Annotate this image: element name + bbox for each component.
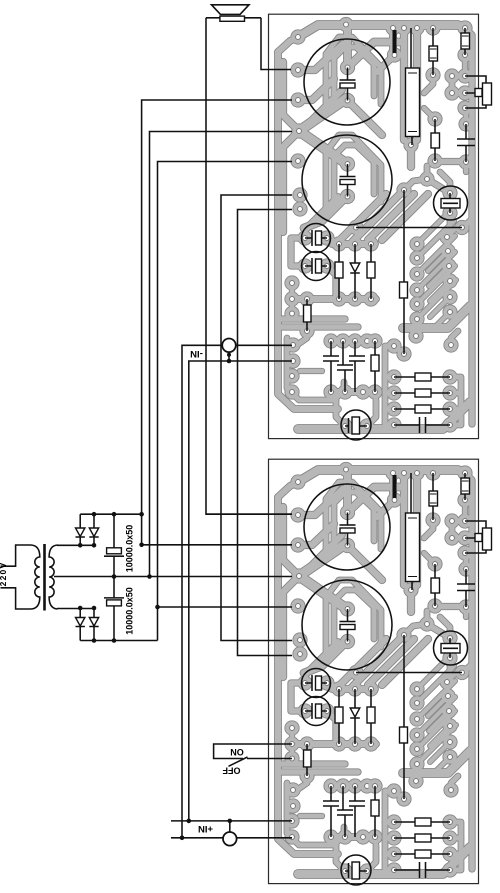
svg-text:220V: 220V: [0, 562, 8, 587]
resistor R1: [432, 28, 434, 75]
wire V- to board B: [158, 606, 293, 608]
diode D1: [76, 514, 85, 545]
junction +IN line A: [228, 819, 233, 824]
smoothing capacitor C12: [104, 514, 124, 576]
wire 220V primary leads: [1, 545, 32, 609]
wire +IN line A: [171, 821, 292, 833]
electrolytic capacitor C3 (circle): [302, 669, 331, 698]
capacitor C9 plates: [323, 786, 339, 837]
resistor R2: [464, 28, 466, 55]
wire V+ to board B: [142, 544, 292, 546]
diode D5 (center): [350, 689, 360, 744]
resistor R11 (bottom mid): [374, 786, 376, 837]
junction V+ to board B: [139, 543, 144, 548]
resistor R8: [394, 376, 450, 378]
capacitor C10 plates: [337, 341, 353, 392]
resistor R1: [432, 473, 434, 520]
wire 0V to board A (vertical x=149.5): [150, 132, 293, 577]
junction diode D4 cathode: [92, 606, 97, 611]
capacitor C7 plates (right): [457, 124, 475, 162]
big filter capacitor C1 outline: [304, 39, 390, 125]
junction 0V rail: [147, 574, 152, 579]
amplifier board A: PCB outline: [269, 14, 479, 438]
wire secondary bottom lead: [57, 608, 94, 610]
electrolytic capacitor C5 (circle, bottom): [341, 410, 371, 440]
resistor R9: [394, 837, 450, 839]
speaker LS1 cone: [212, 5, 250, 15]
input jack +IN tip circle: [223, 832, 237, 846]
speaker LS1 magnet: [206, 17, 261, 19]
switch S1 lever: [229, 757, 248, 766]
wire V+ rail: [80, 513, 141, 515]
diode D3: [76, 608, 85, 641]
junction diode D1 anode: [78, 543, 83, 548]
junction diode D2 anode: [92, 543, 97, 548]
amplifier board B: copper trace outlines: [278, 470, 472, 874]
resistor R4 (center): [338, 689, 340, 744]
electrolytic capacitor C3 (circle): [302, 224, 331, 253]
wire -IN tip: [182, 345, 292, 838]
svg-text:10000.0x50: 10000.0x50: [125, 587, 135, 635]
resistor R5 (center): [370, 689, 372, 744]
capacitor C11 plates: [349, 341, 365, 392]
film capacitor C6 (tall rectangle): [411, 28, 412, 145]
svg-text:-IN: -IN: [190, 348, 203, 359]
resistor R2: [464, 473, 466, 500]
transformer T1 secondary winding: [49, 545, 58, 609]
capacitor C1 plates: [340, 524, 356, 526]
capacitor C1 plates: [340, 79, 356, 81]
wire W2 (horizontal): [356, 672, 462, 674]
resistor R10: [394, 853, 450, 855]
diode D4: [89, 608, 98, 641]
transistor Q1 (circle): [434, 186, 468, 220]
input jack -IN tip circle: [222, 339, 236, 353]
transformer T1 primary winding: [31, 545, 40, 609]
junction V- rail / C13: [112, 638, 117, 643]
resistor R5 (center): [370, 244, 372, 299]
junction -IN sleeve to +IN line: [187, 819, 192, 824]
transformer T1 core: [43, 544, 46, 611]
svg-text:ON: ON: [230, 747, 244, 757]
big filter capacitor C1 outline: [304, 484, 390, 570]
electrolytic capacitor C4 (circle): [302, 252, 331, 281]
capacitor C9 plates: [323, 341, 339, 392]
junction V- rail / D4: [92, 638, 97, 643]
junction V- branch to board B: [155, 605, 160, 610]
junction -IN sleeve: [227, 353, 231, 357]
capacitor C7 plates (right): [457, 569, 475, 607]
wire W1 with resistor R7: [403, 635, 405, 799]
electrolytic capacitor C5 (circle, bottom): [341, 855, 371, 885]
resistor R3: [434, 119, 436, 161]
junction V+ rail: [139, 512, 144, 517]
svg-text:OFF: OFF: [222, 766, 240, 776]
wire V- to board A (vertical x=157.5): [158, 162, 293, 641]
wire 0V mid rail: [54, 576, 292, 578]
amplifier board A: copper trace outlines: [278, 25, 472, 429]
wire W1 with resistor R7: [403, 190, 405, 354]
resistor R11 (bottom mid): [374, 341, 376, 392]
input connector J1: [465, 76, 486, 108]
wire jumper (black bar): [393, 475, 397, 498]
capacitor C11 plates: [349, 786, 365, 837]
smoothing capacitor C13: [104, 577, 124, 641]
transistor Q1 (circle): [434, 631, 468, 665]
capacitor C2 plates: [340, 621, 356, 623]
amplifier board B: PCB outline: [269, 459, 479, 883]
diode D5 (center): [350, 244, 360, 299]
resistor R6 (lower left): [306, 744, 308, 776]
electrolytic capacitor C4 (circle): [302, 697, 331, 726]
wire bridge link 1 (boards A-B): [221, 195, 292, 641]
svg-text:+IN: +IN: [198, 823, 213, 834]
amplifier board B: pads: [285, 463, 472, 878]
amplifier board A: pad outlines: [284, 17, 473, 434]
wire speaker right lead to board A pad: [261, 18, 291, 70]
resistor R6 (lower left): [306, 299, 308, 331]
amplifier board A: pads: [285, 18, 472, 433]
wire V+ to board A (vertical x=141.6): [142, 100, 292, 545]
wire jumper (black bar): [393, 30, 397, 53]
amplifier board B: pad outlines: [284, 462, 473, 879]
wire secondary top lead: [57, 544, 94, 546]
resistor R8: [394, 821, 450, 823]
wire V+ rail to board B pad: [206, 513, 292, 515]
junction -IN tip to +IN line: [180, 836, 185, 841]
junction V+ rail / C12: [112, 512, 117, 517]
wire speaker left lead to board B pad: [206, 18, 292, 514]
capacitor C8 (bottom right): [394, 862, 450, 878]
film capacitor C6 (tall rectangle): [411, 473, 412, 590]
input connector J1: [465, 521, 486, 553]
resistor R4 (center): [338, 244, 340, 299]
diode D2: [89, 514, 98, 545]
resistor R3: [434, 564, 436, 606]
resistor R10: [394, 408, 450, 410]
capacitor C10 plates: [337, 786, 353, 837]
switch S1 wiring: [214, 744, 292, 759]
wire V- rail: [80, 640, 157, 642]
junction diode D3 cathode: [78, 606, 83, 611]
wire W2 (horizontal): [356, 227, 462, 229]
wire -IN sleeve: [189, 352, 292, 821]
wire bridge link 2 (boards A-B): [238, 210, 293, 656]
wire +IN line B: [171, 837, 292, 839]
amplifier board B: copper traces: [278, 470, 472, 874]
amplifier board A: copper traces: [278, 25, 472, 429]
big filter capacitor C2 outline: [302, 135, 392, 225]
svg-text:10000.0x50: 10000.0x50: [125, 525, 135, 573]
capacitor C8 (bottom right): [394, 417, 450, 433]
junction V+ rail / D2: [92, 512, 97, 517]
junction mid rail / C12: [112, 574, 117, 579]
capacitor C2 plates: [340, 176, 356, 178]
big filter capacitor C2 outline: [302, 580, 392, 670]
resistor R9: [394, 392, 450, 394]
